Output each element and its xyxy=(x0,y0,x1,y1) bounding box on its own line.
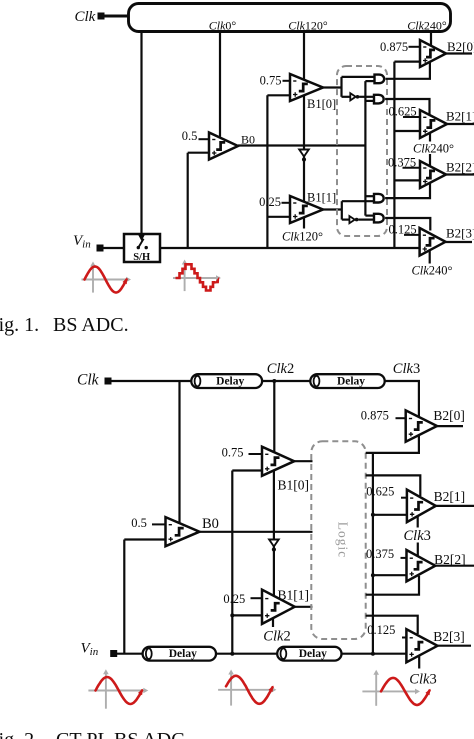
wire B1[1] clock stub xyxy=(303,217,305,228)
waveform axes fig2 wave2 axes xyxy=(230,673,232,706)
wire B1[1] plus input xyxy=(267,216,290,218)
delay block Delay4 xyxy=(277,647,341,661)
junction B2[1] plus junction (fig2) xyxy=(371,513,375,517)
wire to U3 input B xyxy=(342,200,374,202)
AND gate U4 xyxy=(374,214,384,223)
svg-text:Clk2: Clk2 xyxy=(263,629,290,645)
wire Vin to Delay3 xyxy=(117,653,143,655)
comparator B1[1] (fig2) xyxy=(262,590,295,624)
svg-text:S/H: S/H xyxy=(133,252,150,263)
junction Vin junction B2 column (fig2) xyxy=(371,652,375,656)
wire B2[0] output (fig2) xyxy=(437,425,463,427)
delay block Delay2 xyxy=(310,374,384,388)
wire Clk drop to B0 (fig2) xyxy=(178,381,180,523)
AND gate U3 xyxy=(374,194,384,203)
logic block boundary (fig1 dashed box) xyxy=(337,66,387,236)
red sine waveform fig2 wave1 xyxy=(96,677,143,704)
clock bus (rounded rect) xyxy=(129,4,451,32)
arrowhead S/H clock xyxy=(138,235,145,242)
comparator B2[1] (fig2) xyxy=(407,490,436,522)
wire 0.125 to B2[3] minus xyxy=(404,234,421,236)
svg-text:Clk240°: Clk240° xyxy=(413,142,454,156)
svg-text:B1[0]: B1[0] xyxy=(278,478,310,493)
svg-text:B2[3]: B2[3] xyxy=(433,629,465,644)
svg-text:Delay: Delay xyxy=(299,648,327,660)
wire B1[1] output xyxy=(323,208,342,210)
wire B2[3] output xyxy=(446,241,473,243)
AND gate U2 xyxy=(374,95,384,104)
wire 0.5 to B0 minus (fig2) xyxy=(152,523,167,525)
wire B2[2] clock stub (fig2) xyxy=(417,543,419,556)
wire 0.875 to B2[0] minus (fig2) xyxy=(396,417,408,419)
svg-text:0.875: 0.875 xyxy=(380,40,408,54)
svg-text:BS ADC.: BS ADC. xyxy=(53,314,129,336)
wire X2 out to U4 input B xyxy=(358,219,374,221)
wire to inverter X2 xyxy=(342,219,350,221)
wire to U2 input B xyxy=(365,100,374,102)
junction Clk2 junction xyxy=(272,379,276,383)
wire to U4 input A xyxy=(365,215,374,217)
wire 0.75 to B1[0] minus xyxy=(283,80,292,82)
wire B2[2] plus input xyxy=(394,179,431,181)
wire 0.375 to B2[2] minus (fig2) xyxy=(401,557,409,559)
wire 0.75 to B1[0] minus (fig2) xyxy=(249,453,264,455)
inverter X2 xyxy=(349,216,354,223)
wire Vin to B0 plus (fig2) xyxy=(123,540,125,654)
comparator B1[1] (fig1) xyxy=(290,196,323,223)
comparator B1[0] (fig2) xyxy=(262,447,294,476)
svg-text:Fig. 2.: Fig. 2. xyxy=(0,729,39,739)
svg-text:0.25: 0.25 xyxy=(259,195,281,209)
svg-text:B2[3]: B2[3] xyxy=(446,226,474,241)
svg-text:Clk: Clk xyxy=(77,372,100,389)
wire B2[2] output xyxy=(446,173,474,175)
logic block (fig2 dashed box) xyxy=(311,441,365,639)
wire 0.25 to B1[1] minus xyxy=(282,202,292,204)
waveform axes fig2 wave1 axes xyxy=(105,672,107,708)
waveform axes fig2 wave3 axes xyxy=(375,673,377,706)
wire Clk to Delay1 xyxy=(110,380,191,382)
wire B2[0] output xyxy=(446,52,472,54)
svg-text:0.5: 0.5 xyxy=(182,129,198,143)
wire to U1 input A xyxy=(342,76,375,78)
wire B0 output (fig2) xyxy=(200,531,313,533)
node Vin terminal (fig1) (square terminal) xyxy=(97,245,104,252)
node Vin terminal (fig2) (square terminal) xyxy=(110,650,117,657)
wire Vin to B1 plus xyxy=(266,95,268,248)
wire 0.5 to B0 minus xyxy=(199,138,211,140)
svg-text:B2[0]: B2[0] xyxy=(433,408,465,423)
svg-text:Logic: Logic xyxy=(336,522,351,559)
wire B2[0] plus input xyxy=(394,60,430,62)
wire Delay2 to B2[0] clock xyxy=(385,381,419,417)
wire U3 output to B2[2] plus xyxy=(385,183,430,199)
svg-text:Clk3: Clk3 xyxy=(404,528,431,544)
wire Delay3 to Delay4 xyxy=(216,653,277,655)
svg-text:0.375: 0.375 xyxy=(366,547,394,561)
junction Vin junction B1 (fig2) xyxy=(230,652,234,656)
wire B0 net vertical (logic) xyxy=(364,81,366,216)
red sine waveform fig1 input sine xyxy=(85,267,127,293)
red sine waveform fig2 wave3 xyxy=(381,678,430,705)
svg-text:B1[1]: B1[1] xyxy=(278,588,310,603)
wire B0 plus input xyxy=(188,152,210,154)
svg-text:Clk2: Clk2 xyxy=(267,361,294,377)
wire B2[2] clock stub xyxy=(429,154,431,166)
svg-text:B1[0]: B1[0] xyxy=(307,97,336,111)
wire Clk to bus xyxy=(103,15,129,18)
AND gate U1 xyxy=(375,75,385,84)
svg-text:CT-PL BS ADC.: CT-PL BS ADC. xyxy=(56,729,190,739)
wire B1[1] clock stub (fig2) xyxy=(272,618,274,627)
inverter X1 xyxy=(350,93,355,100)
comparator B2[0] (fig1) xyxy=(420,40,446,67)
comparator B0 (fig2) xyxy=(166,517,200,546)
wire Vin to B0 plus xyxy=(187,153,189,248)
wire U2 output to B2[1] xyxy=(385,99,429,115)
waveform axes fig1 staircase axes xyxy=(184,263,186,292)
wire B2[3] clock stub xyxy=(429,250,431,263)
wire Clk2 drop to B1[0] xyxy=(273,381,275,452)
wire B1[1] branch vertical xyxy=(341,201,343,219)
wire 0.125 to B2[3] minus (fig2) xyxy=(402,637,408,639)
wire B1[1] output (fig2) xyxy=(295,606,313,608)
wire to U3 input A xyxy=(365,195,374,197)
wire 0.625 to B2[1] minus (fig2) xyxy=(401,497,408,499)
wire B1[0] to B1[1] clock xyxy=(273,470,275,596)
svg-text:Clk0°: Clk0° xyxy=(209,19,237,33)
wire to inverter X1 xyxy=(342,96,351,98)
wire X1 out to U2 input A xyxy=(359,96,374,98)
wire Clk0 drop to B0 xyxy=(219,31,221,137)
comparator B2[3] (fig1) xyxy=(420,228,446,256)
svg-text:Clk240°: Clk240° xyxy=(407,19,447,33)
junction B2[2] plus junction (fig2) xyxy=(371,573,375,577)
wire B0 output xyxy=(238,144,365,146)
svg-text:B2[2]: B2[2] xyxy=(446,160,474,175)
wire B1[0] plus input xyxy=(267,94,290,96)
svg-text:Clk240°: Clk240° xyxy=(411,264,452,278)
svg-text:Delay: Delay xyxy=(169,648,197,660)
wire Delay1 to Delay2 xyxy=(262,380,310,382)
svg-text:Clk120°: Clk120° xyxy=(288,19,328,33)
waveform axes fig1 sine axes xyxy=(92,265,94,293)
svg-text:0.75: 0.75 xyxy=(260,74,282,88)
wire U4 output to B2[3] xyxy=(385,218,430,231)
wire U1 output to B2[0] plus xyxy=(386,62,430,79)
clock tap arrow fig2 clk2 arrow xyxy=(269,540,279,547)
wire Clk120 drop to B1[0] xyxy=(303,31,305,80)
wire 0.875 to B2[0] minus xyxy=(409,46,422,48)
clock tap arrow fig1 clk120 arrow xyxy=(299,150,309,157)
svg-text:Clk3: Clk3 xyxy=(409,672,436,688)
wire Clk drop to S/H xyxy=(140,31,142,234)
comparator B2[2] (fig2) xyxy=(407,550,436,581)
svg-text:B2[1]: B2[1] xyxy=(434,489,466,504)
delay block Delay3 xyxy=(143,647,216,661)
svg-text:0.625: 0.625 xyxy=(366,484,394,498)
wire B1[0] output xyxy=(323,86,342,88)
delay block Delay1 xyxy=(191,374,262,388)
wire 0.25 to B1[1] minus (fig2) xyxy=(251,597,264,599)
comparator B2[0] (fig2) xyxy=(406,410,437,441)
wire Vin bus (S/H output) xyxy=(160,247,420,249)
svg-text:0.25: 0.25 xyxy=(223,592,245,606)
wire Vin to S/H xyxy=(103,247,124,249)
svg-text:0.75: 0.75 xyxy=(222,446,244,460)
wire B2[3] clock stub (fig2) xyxy=(418,656,420,669)
wire Vin to B1 plus (fig2) xyxy=(231,471,233,654)
svg-text:Clk: Clk xyxy=(75,9,96,25)
svg-text:Fig. 1.: Fig. 1. xyxy=(0,314,39,336)
wire logic out C to B2[2] plus xyxy=(366,576,419,595)
node Clk input terminal (fig1) (square terminal) xyxy=(98,13,105,20)
comparator B2[3] (fig2) xyxy=(406,629,437,662)
switch inside S/H xyxy=(137,246,140,249)
wire B2[3] output (fig2) xyxy=(438,645,472,647)
comparator B0 (fig1) xyxy=(209,133,238,160)
wire B2[1] clock stub xyxy=(429,133,431,142)
wire 0.375 to B2[2] minus xyxy=(403,167,422,169)
wire 0.625 to B2[1] minus xyxy=(403,116,421,118)
svg-text:Delay: Delay xyxy=(337,376,365,388)
wire logic out B to B2[1] xyxy=(366,475,421,496)
junction B1[1] plus junction xyxy=(230,613,234,617)
wire B1[1] plus input (fig2) xyxy=(232,614,262,616)
wire B2[1] clock stub (fig2) xyxy=(417,517,419,528)
svg-text:B2[1]: B2[1] xyxy=(446,109,474,124)
wire B2[1] output (fig2) xyxy=(436,505,474,507)
wire Clk120 B1[0] to B1[1] xyxy=(303,95,305,201)
node Clk terminal (fig2) (square terminal) xyxy=(105,378,112,385)
wire Vin vertical (B2 column) xyxy=(393,62,395,248)
wire Delay4 to B2[3] plus xyxy=(342,653,407,655)
svg-text:0.5: 0.5 xyxy=(131,516,147,530)
S/H block xyxy=(124,234,160,262)
red staircase waveform (S/H output) xyxy=(176,264,216,290)
comparator B1[0] (fig1) xyxy=(290,74,323,101)
comparator B2[2] (fig1) xyxy=(420,161,446,188)
svg-text:0.875: 0.875 xyxy=(361,409,389,423)
wire Vin vertical (fig2 B2 column) xyxy=(372,453,374,654)
wire B2[1] plus input xyxy=(394,130,420,132)
svg-text:Delay: Delay xyxy=(216,376,244,388)
wire Clk240 drop to B2[0] xyxy=(430,31,432,46)
svg-text:B0: B0 xyxy=(202,516,219,532)
wire logic out D to B2[3] xyxy=(366,616,418,634)
wire logic out A to B2[0] plus xyxy=(366,435,419,453)
wire B2[1] plus input (fig2) xyxy=(373,514,407,516)
red sine waveform fig2 wave2 xyxy=(226,676,273,704)
wire B1[0] branch vertical xyxy=(340,77,342,97)
svg-text:Clk120°: Clk120° xyxy=(282,230,323,244)
wire B1[0] output (fig2) xyxy=(294,460,312,462)
svg-text:B2[0]: B2[0] xyxy=(447,39,474,54)
svg-text:B1[1]: B1[1] xyxy=(307,191,336,205)
red staircase arrowhead xyxy=(214,277,219,284)
wire B2[2] plus input (fig2) xyxy=(373,574,407,576)
wire B2[1] output xyxy=(447,123,474,125)
wire B0 plus input (fig2) xyxy=(124,538,165,540)
wire B2[2] output (fig2) xyxy=(435,565,474,567)
comparator B2[1] (fig1) xyxy=(420,110,447,138)
svg-text:0.125: 0.125 xyxy=(367,623,395,637)
svg-text:Clk3: Clk3 xyxy=(393,361,420,377)
wire to U1 input B xyxy=(365,80,374,82)
wire B1[0] plus input (fig2) xyxy=(232,469,262,471)
